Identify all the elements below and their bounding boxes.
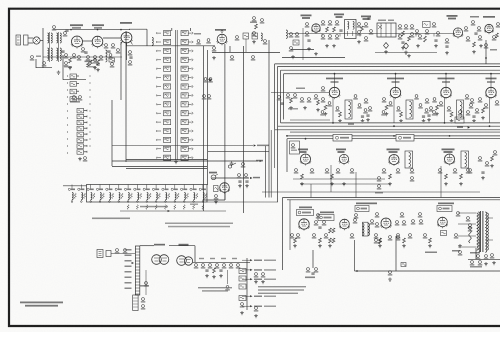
- AGC frame bottom: [207, 201, 278, 203]
- ladder ground: [78, 157, 87, 162]
- balun L1: [33, 37, 43, 44]
- grid parts: [432, 98, 444, 116]
- dotted adjustment column: [89, 75, 90, 146]
- parts: [212, 47, 256, 61]
- B+ callout box 1: [333, 135, 352, 142]
- vert row caps: [205, 268, 223, 279]
- wire: [287, 199, 500, 201]
- wire: [103, 37, 121, 39]
- wire: [264, 146, 266, 198]
- bus line 5: [281, 122, 500, 124]
- label sync clipper: [297, 207, 314, 216]
- arrow: [132, 262, 134, 264]
- wire: [126, 45, 215, 47]
- label sound IF amp: [301, 15, 312, 19]
- cathode parts: [396, 95, 419, 123]
- tube V3 oscillator: [120, 22, 133, 46]
- wire: [290, 119, 330, 121]
- bracket line: [120, 210, 226, 212]
- rect filter parts: [441, 227, 473, 236]
- wire: [289, 200, 291, 250]
- tube V22 vert out B: [177, 256, 193, 266]
- note text 1: [198, 287, 232, 292]
- caption under tuner: [92, 218, 130, 220]
- 260 ohm bracket: [348, 123, 354, 125]
- long B+ line: [355, 270, 500, 272]
- tube V16: [444, 154, 455, 166]
- RF coil ladder B: [77, 109, 87, 155]
- copyright caption: [20, 302, 63, 307]
- interlock plug: [97, 249, 135, 258]
- tube stub down: [393, 98, 395, 123]
- B+ feed arrows: [242, 259, 276, 307]
- bus line 3: [281, 69, 500, 71]
- label power supply: [437, 203, 454, 212]
- wire: [112, 166, 207, 168]
- tube V20 rect: [437, 217, 448, 228]
- wire: [111, 100, 113, 166]
- RF coil ladder A: [70, 74, 79, 101]
- wire: [145, 270, 147, 295]
- bus line 4: [284, 73, 500, 75]
- parts: [470, 16, 500, 54]
- focus coil: [133, 295, 138, 311]
- wire: [172, 28, 191, 31]
- label disc: [334, 14, 344, 18]
- junction dots: [286, 73, 492, 140]
- audio frame top: [283, 197, 500, 199]
- mid wire: [43, 56, 122, 58]
- tube V10 video IF: [390, 87, 401, 99]
- wire: [129, 29, 147, 46]
- label video IF 1: [326, 78, 343, 83]
- channel coil row: [68, 185, 207, 210]
- sound row parts: [294, 169, 471, 174]
- sound IF transformer: [405, 151, 413, 168]
- tube V8 noise inv: [483, 16, 495, 34]
- wire: [293, 178, 385, 180]
- wire: [291, 49, 314, 51]
- tube stub up: [395, 74, 397, 88]
- service note text: [165, 223, 233, 228]
- wire B+ line: [112, 160, 263, 162]
- mixer plate parts: [128, 51, 133, 66]
- bus line 10: [287, 138, 500, 140]
- extra IF parts: [364, 99, 475, 122]
- wire: [126, 159, 207, 161]
- long vertical feed: [268, 40, 270, 198]
- ratio det transformer: [377, 20, 396, 38]
- cathode parts: [447, 95, 470, 123]
- label video IF 3: [438, 78, 455, 83]
- transformer bottom parts: [452, 250, 488, 268]
- wire: [126, 168, 207, 170]
- tube V7 1st audio: [453, 28, 463, 39]
- interstage parts: [357, 104, 368, 123]
- wire: [121, 42, 127, 100]
- wire: [302, 28, 304, 60]
- wire: [208, 150, 269, 152]
- wire: [395, 236, 397, 271]
- tube V5 sound takeoff: [215, 29, 227, 45]
- top wire: [53, 29, 130, 31]
- wire: [282, 52, 411, 58]
- osc section box left edge: [125, 31, 127, 162]
- cluster: [70, 96, 82, 103]
- dotted adjustment column: [67, 75, 68, 153]
- wire: [208, 78, 212, 82]
- bus line 2: [278, 65, 500, 67]
- grounds: [384, 44, 420, 54]
- grid parts: [320, 98, 332, 116]
- audio out transformer: [363, 222, 370, 236]
- cathode parts V2: [81, 48, 104, 70]
- label horiz afc: [355, 203, 377, 212]
- channel strip ladder: [156, 31, 193, 161]
- wire: [63, 185, 87, 187]
- coupling parts: [321, 21, 343, 48]
- tube stub up: [445, 74, 447, 88]
- label video IF 2: [387, 78, 404, 83]
- IF coil: [457, 100, 464, 119]
- wire: [375, 52, 437, 54]
- interstage parts: [469, 104, 480, 123]
- AGC parts: [214, 174, 249, 192]
- parts right col: [375, 151, 497, 194]
- label vert osc: [318, 212, 334, 221]
- gnd: [57, 71, 61, 75]
- parts on feed: [202, 78, 213, 100]
- wire: [311, 165, 441, 198]
- tube V1 RF amp: [70, 24, 83, 48]
- vert line row: [193, 261, 250, 263]
- tube stub up: [490, 74, 492, 88]
- tube V6 sound IF: [311, 24, 320, 34]
- tube stub down: [444, 98, 446, 123]
- grid parts: [381, 98, 393, 116]
- boost cap cluster: [305, 268, 318, 279]
- wire: [212, 177, 260, 179]
- wire: [355, 240, 358, 272]
- tube V21 vert out A: [152, 255, 169, 265]
- bus line 7: [275, 129, 500, 131]
- focus parts: [140, 282, 149, 310]
- osc coil L5: [106, 50, 115, 68]
- vert row parts: [194, 258, 241, 269]
- interstage parts: [418, 104, 429, 123]
- 4th stage parts: [478, 98, 500, 120]
- wire: [300, 183, 390, 185]
- osc box right edge: [207, 50, 209, 185]
- stubs: [322, 34, 434, 37]
- parts: [305, 23, 311, 51]
- trap cluster: [286, 30, 299, 59]
- left feed column: [250, 17, 264, 44]
- wire: [485, 40, 487, 64]
- takeoff parts: [235, 33, 267, 45]
- note text 2: [258, 286, 306, 294]
- tube V19 horiz osc: [381, 218, 392, 230]
- row bracket: [190, 204, 198, 205]
- sound row gnd: [300, 182, 463, 186]
- rectifier resistor: [468, 224, 473, 243]
- wire: [225, 44, 230, 200]
- ladder bottom ground: [174, 160, 178, 164]
- main sound wire: [288, 33, 455, 35]
- row parts upper: [314, 212, 471, 229]
- parts: [357, 18, 374, 44]
- label audio det: [361, 16, 371, 20]
- bus line 8: [290, 131, 500, 133]
- tube V12 video IF: [485, 87, 496, 99]
- tube V14: [336, 149, 349, 166]
- tube stub down: [332, 98, 334, 123]
- osc top parts: [152, 33, 211, 45]
- wire: [112, 144, 269, 146]
- caption channel strip: [140, 206, 168, 208]
- vert right ladder: [239, 258, 247, 315]
- label ratio det: [442, 149, 455, 153]
- AGC label: [209, 172, 217, 174]
- sound IF frame left: [286, 139, 288, 172]
- TP cluster: [290, 141, 300, 154]
- IF coil: [345, 100, 352, 119]
- AGC bottom parts: [214, 162, 234, 204]
- parts: [445, 27, 471, 55]
- ladder center line: [175, 30, 177, 160]
- tube V13: [298, 149, 311, 166]
- video det cluster: [455, 111, 470, 129]
- parts: [398, 25, 420, 50]
- wire: [212, 39, 280, 52]
- yoke labels: [125, 249, 132, 289]
- IF grid wire: [271, 92, 330, 94]
- wire: [274, 130, 276, 168]
- tube V11 video IF: [440, 87, 451, 99]
- wire: [63, 55, 86, 80]
- sync row parts: [290, 234, 459, 239]
- tube stub up: [334, 74, 336, 88]
- bus corner verticals: [275, 64, 284, 202]
- disc transformer: [345, 20, 356, 39]
- parts above tubes: [52, 26, 69, 37]
- input transformer T1: [48, 32, 62, 62]
- parts mid tuner: [93, 44, 121, 72]
- wire: [312, 250, 314, 268]
- label: [425, 252, 437, 254]
- long vertical feed: [243, 46, 245, 213]
- tube V2 converter: [92, 24, 104, 48]
- tube V18: [339, 219, 350, 230]
- tube V4 AGC: [219, 183, 230, 194]
- switch S1: [228, 163, 245, 168]
- part on line: [388, 263, 406, 282]
- r100 blob: [85, 61, 92, 68]
- tube V17 sync: [298, 219, 309, 231]
- grid parts under V1: [61, 51, 81, 70]
- tube stub down: [489, 98, 491, 123]
- sound row res: [301, 174, 463, 179]
- sync row gnd: [293, 244, 462, 248]
- wire: [42, 28, 44, 68]
- wire: [83, 40, 93, 42]
- wire: [204, 46, 226, 211]
- tube V9 video IF: [329, 87, 340, 99]
- antenna terminals: [16, 35, 33, 45]
- wire: [262, 191, 480, 193]
- power transformer T4: [458, 211, 493, 252]
- label 2nd sound IF: [387, 149, 400, 153]
- volume control cluster: [418, 21, 441, 47]
- ratio det transformer 2: [461, 151, 469, 168]
- label V16A: [154, 244, 165, 246]
- part: [225, 270, 230, 291]
- label 1st audio: [447, 15, 458, 19]
- AGC loop tuner: [30, 56, 52, 68]
- IF input cluster: [277, 87, 326, 112]
- cathode parts: [335, 95, 358, 123]
- bus line 6: [278, 125, 500, 127]
- label V16B: [179, 244, 189, 246]
- wire: [140, 246, 195, 262]
- bc parts: [254, 273, 265, 318]
- sync row res: [294, 228, 432, 243]
- IF coil: [406, 100, 413, 119]
- B+ callout box 2: [396, 135, 414, 142]
- channel row box: [87, 185, 208, 203]
- diamond test point: [384, 43, 409, 50]
- yoke plug bar: [135, 246, 139, 295]
- right end cluster: [468, 248, 500, 266]
- AGC pot: [211, 174, 218, 180]
- bus line 1: [275, 63, 500, 65]
- ps filter column: [374, 236, 401, 244]
- long vertical feed b: [270, 130, 272, 198]
- label video IF 4: [486, 78, 497, 83]
- bus line 9: [287, 135, 500, 137]
- tube V15: [389, 155, 400, 167]
- audio frame left: [282, 198, 284, 271]
